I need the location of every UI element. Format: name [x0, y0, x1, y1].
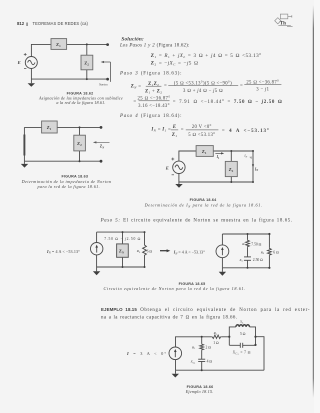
- wire top of 18.65R: [222, 233, 269, 235]
- capacitor XC (18.65R): [244, 257, 251, 260]
- svg-text:Z1 = R1 + jXL = 3 Ω + j4 Ω = 5: Z1 = R1 + jXL = 3 Ω + j4 Ω = 5 Ω <53.13°: [151, 52, 262, 59]
- svg-text:FIGURA 18.64: FIGURA 18.64: [190, 198, 217, 202]
- svg-text:E: E: [172, 125, 177, 130]
- svg-text:E: E: [165, 165, 169, 170]
- svg-text:na a la reactancia capacitiva: na a la reactancia capacitiva de 7 Ω en …: [101, 314, 237, 320]
- svg-text:=: =: [181, 128, 184, 133]
- impedance Z2 (18.64): [225, 161, 237, 176]
- wire left short-circuit of 18.63: [23, 127, 25, 161]
- wire left branch of 18.65L: [96, 232, 98, 267]
- impedance Z1 (18.62): [51, 39, 67, 50]
- svg-text:7.50 Ω: 7.50 Ω: [251, 243, 261, 247]
- voltage source E (18.64): [173, 161, 185, 173]
- capacitor XC2 (18.66): [240, 343, 242, 348]
- equation Z1: [151, 52, 262, 66]
- svg-text:5 Ω: 5 Ω: [240, 332, 246, 336]
- ground (18.65R): [219, 268, 226, 276]
- svg-text:Solución:: Solución:: [121, 37, 144, 43]
- inductor XL (18.66): [236, 325, 250, 327]
- wire top of 18.63: [24, 126, 101, 128]
- svg-text:25 Ω <−36.87°: 25 Ω <−36.87°: [246, 79, 279, 85]
- wire top right of 18.66: [221, 336, 229, 338]
- voltage source E (18.62): [25, 57, 37, 69]
- figure 18.64 network: [179, 151, 253, 182]
- page header: [17, 21, 88, 26]
- svg-text:FIGURA 18.63: FIGURA 18.63: [61, 174, 88, 178]
- node dots (18.65R): [247, 233, 271, 269]
- current source I (18.66): [169, 347, 182, 360]
- implication arrow between circuits: [160, 249, 170, 252]
- terminal bracket arrow (18.62): [103, 62, 110, 82]
- svg-text:6 Ω: 6 Ω: [147, 249, 153, 253]
- figure 18.66 network wires: [176, 327, 265, 370]
- capacitor XC1 (18.66): [198, 359, 205, 361]
- impedance Z1 (18.63): [42, 121, 58, 133]
- equation ZN line 1: [131, 79, 282, 94]
- wire bottom of 18.62: [31, 68, 107, 79]
- wire Z2 branch of 18.64: [230, 151, 232, 182]
- svg-text:Z1 + Z2: Z1 + Z2: [145, 89, 162, 94]
- wire top of 18.65L: [97, 231, 145, 233]
- caption figure 18.63: [21, 174, 112, 188]
- wire bottom of 18.65L: [97, 266, 145, 268]
- svg-text:Paso 3 (Figura 18.63):: Paso 3 (Figura 18.63):: [119, 71, 182, 76]
- wire right branch of 18.65L: [144, 232, 146, 267]
- grey IN label (18.64): [243, 154, 252, 160]
- svg-text:Paso 4 (Figura 18.64):: Paso 4 (Figura 18.64):: [119, 114, 182, 119]
- wire middle branch of 18.65R: [247, 234, 249, 268]
- node dots (18.63): [79, 126, 103, 163]
- wire Z2 branch top: [86, 44, 88, 55]
- resistor R2 (18.66): [211, 335, 221, 338]
- svg-text:Th: Th: [280, 22, 286, 27]
- wire right branch of 18.65R: [268, 234, 270, 268]
- svg-text:=: =: [133, 99, 136, 104]
- example 18.15 heading paragraph: [101, 307, 310, 320]
- svg-text:= 4 A <−53.13°: = 4 A <−53.13°: [222, 129, 270, 134]
- caption figure 18.62: [38, 92, 123, 106]
- wire bottom of 18.63: [24, 160, 101, 162]
- equation IN: [150, 125, 269, 138]
- svg-text:3 Ω + j4 Ω − j5 Ω: 3 Ω + j4 Ω − j5 Ω: [183, 88, 223, 94]
- svg-text:ZN =: ZN =: [131, 84, 142, 89]
- svg-text:I = 3 A < 0°: I = 3 A < 0°: [126, 351, 167, 356]
- IN short-circuit current label (18.64): [252, 164, 258, 172]
- load resistor RL (18.65L): [143, 244, 147, 256]
- svg-text:2.50 Ω: 2.50 Ω: [253, 258, 263, 262]
- svg-text:TEOREMAS DE REDES (ca): TEOREMAS DE REDES (ca): [33, 21, 89, 26]
- svg-text:Los Pasos 1 y 2 (Figura 18.62): Los Pasos 1 y 2 (Figura 18.62):: [119, 44, 190, 49]
- node dots (18.65L): [122, 231, 146, 268]
- svg-text:20 V <0°: 20 V <0°: [192, 125, 212, 130]
- ground (18.66): [172, 370, 179, 377]
- svg-text:Paso 5: El circuito equivalent: Paso 5: El circuito equivalente de Norto…: [100, 218, 293, 223]
- svg-text:4 Ω: 4 Ω: [207, 360, 213, 364]
- caption figure 18.66: [185, 385, 214, 394]
- node dots (18.66): [201, 336, 257, 372]
- svg-text:= 7.91 Ω <−18.44° = 7.50 Ω − j: = 7.91 Ω <−18.44° = 7.50 Ω − j2.50 Ω: [173, 99, 283, 105]
- svg-text:3 − j1: 3 − j1: [256, 87, 269, 92]
- wire left branch of 18.65R: [221, 234, 223, 268]
- wire top left of 18.64: [179, 151, 196, 161]
- svg-text:=: =: [164, 84, 167, 89]
- svg-text:5 Ω <53.13°: 5 Ω <53.13°: [188, 132, 215, 138]
- wire R1 branch of 18.66: [201, 337, 203, 370]
- wire top left of 18.62: [31, 44, 51, 56]
- svg-text:Norton: Norton: [98, 83, 108, 87]
- wire bottom of 18.65R: [222, 267, 269, 269]
- svg-text:Determinación de IN para la re: Determinación de IN para la red de la fi…: [144, 203, 263, 209]
- svg-text:25 Ω <−36.87°: 25 Ω <−36.87°: [138, 95, 171, 101]
- figure 18.65 right circuit wires: [222, 234, 269, 268]
- Thevenin margin icon: [275, 14, 293, 27]
- ground (18.65L): [93, 267, 100, 275]
- wire bottom of 18.66: [176, 360, 265, 371]
- svg-text:para la red de la figura 18.61: para la red de la figura 18.61.: [37, 184, 101, 189]
- wire top left of 18.66: [176, 337, 212, 347]
- svg-text:=: =: [240, 83, 243, 88]
- tank loop of 18.66: [229, 327, 255, 345]
- svg-text:812: 812: [17, 21, 25, 26]
- svg-text:IN = I1 =: IN = I1 =: [150, 128, 171, 133]
- svg-text:a la red de la figura 18.61.: a la red de la figura 18.61.: [56, 100, 105, 105]
- figure 18.62 network: [31, 44, 107, 79]
- figure 18.63 network: [24, 127, 101, 161]
- ZN measuring arrow (18.63): [93, 141, 110, 149]
- svg-text:7.50 Ω − j2.50 Ω: 7.50 Ω − j2.50 Ω: [104, 237, 141, 241]
- load resistor RL (18.65R): [268, 248, 272, 256]
- wire tank output of 18.66: [256, 337, 265, 371]
- wire ZN branch of 18.65L: [122, 232, 124, 267]
- wire Z2 branch of 18.63: [79, 127, 81, 161]
- wire Z2 branch bottom: [86, 70, 88, 79]
- page edge line: [313, 0, 320, 413]
- current I1 arrow (18.64): [215, 152, 224, 160]
- node dots (18.62): [86, 43, 109, 80]
- ground (18.64): [175, 182, 182, 188]
- node dots (18.64): [230, 150, 254, 183]
- wire top right of 18.64: [213, 150, 253, 152]
- impedance Z2 (18.62): [81, 55, 93, 70]
- current source IN (18.65R): [216, 245, 229, 258]
- ground (18.62): [28, 79, 35, 87]
- svg-text:6 Ω: 6 Ω: [273, 251, 279, 255]
- wire short-circuit branch of 18.64: [252, 151, 254, 182]
- svg-text:E: E: [17, 60, 21, 65]
- figure 18.65 left circuit wires: [97, 232, 145, 267]
- impedance ZN box (18.65L): [117, 244, 129, 257]
- impedance Z1 (18.64): [196, 146, 213, 157]
- svg-text:Circuito equivalente de Norton: Circuito equivalente de Norton para la r…: [104, 286, 246, 291]
- svg-text:1 Ω: 1 Ω: [213, 341, 219, 345]
- wire bottom of 18.64: [179, 174, 253, 183]
- ground (18.63): [21, 161, 28, 167]
- resistor R 7.50 ohm (18.65R): [246, 240, 250, 248]
- impedance Z2 (18.63): [74, 135, 86, 151]
- current source IN (18.65L): [91, 243, 103, 255]
- svg-text:Ejemplo 18.15.: Ejemplo 18.15.: [185, 389, 214, 394]
- svg-text:Z1: Z1: [172, 133, 178, 138]
- resistor R1 (18.66): [200, 343, 204, 350]
- svg-text:2 Ω: 2 Ω: [206, 345, 212, 349]
- wire top right of 18.62: [67, 43, 108, 45]
- caption figure 18.65: [104, 282, 246, 291]
- svg-text:3.16 <−18.43°: 3.16 <−18.43°: [138, 104, 170, 109]
- equation ZN line 2: [133, 95, 282, 108]
- caption figure 18.64: [144, 198, 263, 209]
